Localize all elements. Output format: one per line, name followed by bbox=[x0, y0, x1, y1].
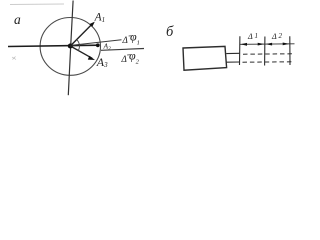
svg-text:а: а bbox=[14, 12, 21, 27]
dim arrow right of segment 1 bbox=[258, 43, 265, 46]
tick 3 bbox=[289, 36, 291, 65]
tick 1 bbox=[239, 36, 241, 65]
center node bbox=[68, 43, 73, 48]
vertical axis line bbox=[68, 1, 73, 96]
angle arc at center bbox=[77, 40, 80, 51]
circle (phasor circle) bbox=[40, 18, 100, 76]
faint speck bbox=[12, 57, 16, 60]
svg-text:б: б bbox=[166, 24, 174, 40]
laser body rectangle bbox=[183, 46, 227, 70]
dim arrow right of segment 2 bbox=[283, 43, 290, 46]
dimension line bbox=[240, 43, 295, 46]
leader line to d-phi-1 bbox=[72, 40, 122, 46]
vector A1 bbox=[70, 24, 92, 46]
dashed beam bottom bbox=[243, 61, 293, 63]
svg-text:Δ 2: Δ 2 bbox=[271, 32, 282, 41]
svg-text:Δ 1: Δ 1 bbox=[247, 32, 258, 41]
vector A3 bbox=[70, 46, 92, 58]
faint scan line top bbox=[10, 3, 64, 6]
dashed beam top bbox=[243, 53, 292, 55]
stub top bbox=[226, 52, 239, 54]
dim arrow left of segment 2 bbox=[265, 43, 272, 46]
stub bottom bbox=[226, 61, 239, 63]
tick 2 bbox=[264, 37, 266, 66]
dim arrow left of segment 1 bbox=[240, 43, 247, 46]
horizontal axis with arrow (vector A2 direction) bbox=[8, 45, 100, 46]
leader line to d-phi-2 bbox=[101, 49, 144, 51]
